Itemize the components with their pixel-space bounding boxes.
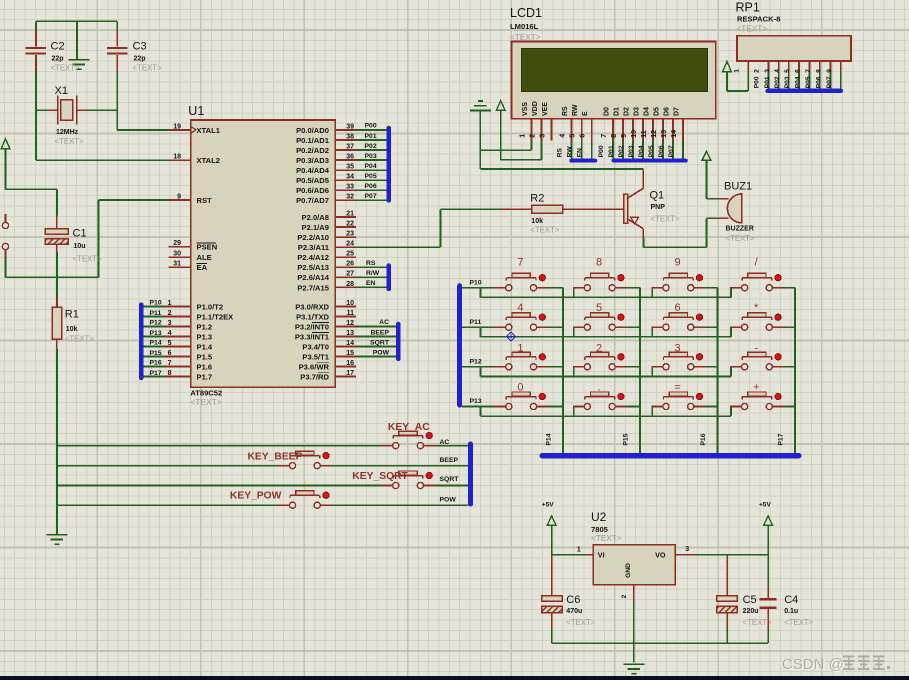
wire C1 to R1	[56, 252, 58, 307]
U2 pin 1 VI	[577, 546, 605, 559]
svg-text:P2.7/A15: P2.7/A15	[297, 283, 329, 292]
LCD1 pin 7 D0	[601, 107, 613, 141]
push-button key 2	[573, 352, 627, 370]
svg-text:9: 9	[675, 257, 681, 269]
svg-text:P17: P17	[777, 433, 784, 445]
svg-text:P00: P00	[598, 145, 605, 157]
svg-text:P1.6: P1.6	[197, 362, 213, 371]
svg-text:22p: 22p	[134, 55, 146, 62]
capacitor C1 electrolytic	[45, 216, 68, 298]
svg-text:P04: P04	[795, 76, 802, 88]
svg-text:P3.3/INT1: P3.3/INT1	[295, 332, 330, 341]
svg-text:P12: P12	[150, 320, 162, 327]
svg-text:3: 3	[168, 320, 172, 327]
wire crystal left vertical / XTAL2 net	[36, 21, 169, 160]
svg-text:38: 38	[346, 133, 354, 140]
wire LCD D0 to bus with net P00	[598, 141, 613, 159]
svg-text:POW: POW	[440, 497, 457, 504]
svg-text:P0.5/AD5: P0.5/AD5	[296, 176, 330, 185]
U1 pin 5 P1.4 with net P14	[144, 340, 213, 352]
RP1 pin 7 with net P05	[805, 61, 820, 89]
svg-text:D5: D5	[653, 107, 660, 116]
svg-text:10: 10	[631, 130, 638, 138]
svg-text:P1.2: P1.2	[197, 322, 213, 331]
wire key 3 to column net P16	[705, 366, 717, 368]
wire keypad row net P11	[462, 327, 731, 337]
svg-text:P01: P01	[764, 76, 771, 88]
LCD1 pin 12 D5	[651, 107, 663, 141]
push-button key 3	[651, 352, 705, 370]
svg-text:<TEXT>: <TEXT>	[651, 215, 680, 224]
svg-text:P2.6/A14: P2.6/A14	[297, 273, 329, 282]
svg-text:XTAL1: XTAL1	[197, 126, 221, 135]
LCD screen	[522, 49, 708, 92]
wire KEY_SQRT to net SQRT	[435, 485, 468, 487]
svg-text:34: 34	[346, 174, 354, 181]
svg-text:P2.2/A10: P2.2/A10	[297, 233, 329, 242]
bus keypad rows P10-P13	[457, 283, 462, 407]
svg-text:6: 6	[795, 69, 802, 73]
push-button key 8	[573, 273, 627, 291]
svg-text:AC: AC	[440, 439, 450, 446]
svg-text:25: 25	[346, 251, 354, 258]
push-button key 1	[494, 352, 548, 370]
svg-text:P15: P15	[150, 350, 162, 357]
wire net P23 from U1 pin 24 to R2	[356, 209, 501, 247]
svg-text:P10: P10	[470, 279, 482, 286]
svg-text:3: 3	[539, 134, 546, 138]
svg-text:P02: P02	[618, 145, 625, 157]
svg-text:P07: P07	[826, 76, 833, 88]
svg-text:C6: C6	[566, 594, 580, 606]
regulator U2 7805 body	[593, 545, 675, 585]
svg-text:+5V: +5V	[542, 502, 555, 509]
svg-text:D3: D3	[633, 107, 640, 116]
U1 pin 14 P3.4/T0 with net SQRT	[302, 339, 395, 351]
U1 pin 11 P3.1/TXD	[296, 310, 356, 322]
svg-text:-: -	[754, 342, 758, 354]
RP1 pin 1	[734, 61, 749, 73]
resistor R2	[501, 205, 594, 213]
svg-text:P3.6/WR: P3.6/WR	[299, 362, 330, 371]
svg-text:P0.3/AD3: P0.3/AD3	[296, 156, 329, 165]
wire +5V to U2 VI	[552, 525, 586, 554]
svg-text:<TEXT>: <TEXT>	[51, 64, 80, 73]
U1 pin 21 P2.0/A8	[302, 210, 357, 222]
svg-text:<TEXT>: <TEXT>	[566, 618, 595, 627]
svg-text:C2: C2	[51, 41, 65, 53]
RP1 pin 3 with net P01	[764, 61, 779, 89]
wire keypad row net P10	[462, 288, 731, 298]
svg-text:5: 5	[168, 340, 172, 347]
U1 pin 37 P0.2/AD2 with net P02	[296, 143, 386, 155]
svg-text:31: 31	[173, 261, 181, 268]
svg-text:7: 7	[517, 257, 523, 269]
svg-text:D0: D0	[603, 107, 610, 116]
U1 pin 19 XTAL1	[169, 123, 221, 135]
svg-text:P06: P06	[365, 183, 377, 190]
svg-text:P13: P13	[470, 398, 482, 405]
push-button KEY_SQRT	[381, 471, 435, 489]
svg-text:P11: P11	[150, 310, 162, 317]
power arrow +5V right	[764, 516, 773, 526]
U1 pin 17 P3.7/RD	[300, 370, 356, 382]
U1 pin 29 PSEN	[169, 240, 218, 252]
svg-text:.: .	[597, 381, 600, 393]
svg-text:EN: EN	[577, 148, 584, 158]
svg-text:RS: RS	[557, 148, 564, 158]
push-button key -	[730, 352, 784, 370]
svg-text:P04: P04	[365, 163, 377, 170]
U1 pin 31 EA	[169, 261, 208, 273]
wire key - to column net P17	[784, 366, 795, 368]
push-button key 5	[573, 313, 627, 331]
U1 pin 28 P2.7/A15 with net EN	[297, 280, 386, 292]
svg-text:P00: P00	[365, 123, 377, 130]
power arrow at RP1 pin 1	[723, 61, 732, 72]
svg-text:P03: P03	[365, 153, 377, 160]
U1 pin 9 RST	[169, 193, 213, 205]
wire LCD D6 to bus with net P06	[658, 141, 673, 159]
svg-text:5: 5	[784, 69, 791, 73]
push-button key 9	[651, 273, 705, 291]
svg-text:10: 10	[346, 300, 354, 307]
LCD1 pin 3 VEE	[539, 102, 551, 141]
svg-text:8: 8	[168, 370, 172, 377]
svg-text:18: 18	[173, 154, 181, 161]
wire KEY_BEEP to net BEEP	[332, 465, 468, 467]
svg-text:BEEP: BEEP	[440, 457, 459, 464]
svg-text:P0.2/AD2: P0.2/AD2	[296, 146, 329, 155]
wire LCD EN to bus	[577, 141, 592, 159]
power arrow above buzzer	[702, 151, 711, 160]
bus below RP1	[765, 89, 843, 93]
svg-text:P05: P05	[648, 145, 655, 157]
RP1 pin 8 with net P06	[816, 61, 831, 89]
LCD1 pin 1 VSS	[519, 102, 531, 141]
wire keypad row net P13	[462, 407, 731, 417]
svg-text:8: 8	[611, 134, 618, 138]
resistor R1	[52, 298, 62, 350]
U1 pin 6 P1.5 with net P15	[144, 350, 213, 362]
svg-text:P03: P03	[628, 145, 635, 157]
bus P1 (left of U1)	[139, 303, 144, 381]
U1 pin 13 P3.3/INT1 with net BEEP	[295, 329, 396, 341]
svg-text:P3.7/RD: P3.7/RD	[300, 372, 329, 381]
svg-text:RW: RW	[567, 146, 574, 158]
LCD1 pin 8 D1	[611, 107, 623, 141]
svg-text:<TEXT>: <TEXT>	[65, 334, 94, 343]
push-button key *	[730, 313, 784, 331]
svg-text:P1.0/T2: P1.0/T2	[197, 302, 224, 311]
wire ground rail to KEY_POW	[57, 504, 278, 506]
svg-text:17: 17	[346, 370, 354, 377]
svg-text:RS: RS	[562, 106, 569, 116]
svg-text:4: 4	[774, 69, 781, 73]
wire key 9 to column net P16	[705, 288, 717, 453]
wire keypad row net P12	[462, 367, 731, 377]
bus RS/RW/EN (right of U1)	[386, 263, 391, 291]
svg-text:KEY_POW: KEY_POW	[230, 491, 282, 502]
push-button key =	[651, 392, 705, 410]
ground bottom-left	[46, 535, 67, 544]
svg-text:U1: U1	[188, 104, 204, 118]
U1 pin 1 P1.0/T2 with net P10	[144, 300, 224, 312]
svg-text:<TEXT>: <TEXT>	[55, 137, 84, 146]
svg-text:2: 2	[168, 310, 172, 317]
svg-text:R2: R2	[530, 193, 544, 205]
svg-text:P1.1/T2EX: P1.1/T2EX	[197, 312, 234, 321]
svg-text:AC: AC	[379, 319, 389, 326]
wire U2 VO to +5V right	[695, 554, 768, 556]
LCD1 pin 11 D4	[641, 107, 653, 141]
svg-text:3: 3	[675, 342, 681, 354]
RP1 pin 2 with net P00	[754, 61, 769, 89]
svg-text:P2.1/A9: P2.1/A9	[302, 223, 329, 232]
wire ground rail to KEY_SQRT	[57, 485, 381, 487]
svg-text:P1.5: P1.5	[197, 352, 213, 361]
svg-text:=: =	[674, 381, 680, 393]
wire key / to column net P17	[784, 288, 795, 453]
LCD1 pin 14 D7	[671, 107, 683, 141]
svg-text:P15: P15	[622, 433, 629, 445]
svg-text:KEY_BEEP: KEY_BEEP	[248, 452, 303, 463]
svg-text:24: 24	[346, 241, 354, 248]
svg-text:C1: C1	[73, 228, 87, 240]
terminal pin J1 upper	[5, 214, 7, 222]
svg-text:1: 1	[517, 342, 523, 354]
bus P0 (right of U1)	[386, 126, 391, 203]
wire LCD D3 to bus with net P03	[628, 141, 643, 159]
svg-text:0.1u: 0.1u	[784, 608, 798, 615]
wire ground branch	[76, 21, 78, 59]
LCD1 pin 9 D2	[621, 107, 633, 141]
svg-text:LCD1: LCD1	[510, 6, 542, 20]
svg-text:10k: 10k	[66, 326, 78, 333]
wire KEY_AC to net AC	[435, 445, 468, 447]
svg-text:P00: P00	[754, 76, 761, 88]
svg-text:4: 4	[517, 302, 523, 314]
U1 pin 32 P0.7/AD7 with net P07	[296, 193, 386, 205]
svg-text:RP1: RP1	[736, 1, 760, 15]
U1 pin 18 XTAL2	[169, 154, 221, 166]
U1 pin 12 P3.2/INT0 with net AC	[295, 319, 396, 331]
svg-text:C4: C4	[784, 594, 798, 606]
svg-text:1: 1	[168, 300, 172, 307]
bus D0-D7 below LCD	[612, 159, 688, 163]
svg-text:37: 37	[346, 143, 354, 150]
svg-text:+: +	[753, 381, 759, 393]
push-button key 4	[494, 313, 548, 331]
svg-text:R1: R1	[65, 308, 79, 320]
wire LCD D5 to bus with net P05	[648, 141, 663, 159]
svg-text:P3.2/INT0: P3.2/INT0	[295, 322, 329, 331]
capacitor C3	[107, 31, 128, 71]
power arrow near LCD	[496, 101, 505, 111]
resistor pack RP1 body	[737, 36, 851, 61]
U1 pin 27 P2.6/A14 with net R/W	[297, 270, 386, 282]
svg-text:R/W: R/W	[366, 270, 380, 277]
svg-text:28: 28	[346, 281, 354, 288]
push-button KEY_BEEP	[278, 451, 332, 469]
svg-text:32: 32	[346, 194, 354, 201]
watermark CSDN	[782, 656, 890, 674]
wire +5V right arrow down	[767, 525, 769, 588]
wire ground rail U2	[552, 602, 769, 663]
svg-text:PSEN: PSEN	[197, 243, 218, 252]
svg-text:12: 12	[346, 320, 354, 327]
wire LCD D1 to bus with net P01	[608, 141, 623, 159]
svg-text:1: 1	[734, 69, 741, 73]
capacitor C4	[760, 589, 777, 629]
svg-text:6: 6	[579, 134, 586, 138]
U2 pin 2 GND	[621, 563, 634, 602]
push-button KEY_AC	[381, 431, 435, 449]
svg-text:P2.4/A12: P2.4/A12	[297, 253, 329, 262]
wire KEY_POW to net POW	[332, 504, 468, 506]
wire LCD RS to bus	[557, 141, 572, 159]
svg-text:6: 6	[675, 302, 681, 314]
svg-text:P12: P12	[470, 358, 482, 365]
svg-text:13: 13	[346, 330, 354, 337]
svg-text:BUZZER: BUZZER	[726, 226, 754, 233]
svg-text:P0.4/AD4: P0.4/AD4	[296, 166, 330, 175]
svg-text:5: 5	[569, 134, 576, 138]
wire key 7 to column net P14	[548, 288, 563, 453]
terminal pin J1 lower	[2, 243, 8, 249]
svg-text:P2.5/A13: P2.5/A13	[297, 263, 329, 272]
IC U1 AT89C52 body	[191, 120, 336, 387]
push-button key 7	[494, 273, 548, 291]
wire ground rail to Q1 collector	[480, 150, 643, 169]
svg-text:11: 11	[641, 130, 648, 138]
U1 pin 10 P3.0/RXD	[295, 300, 356, 312]
svg-text:E: E	[582, 111, 589, 116]
U1 pin 30 ALE	[169, 251, 212, 263]
svg-text:12MHz: 12MHz	[56, 129, 79, 136]
svg-text:<TEXT>: <TEXT>	[510, 33, 541, 42]
U2 pin 3 VO	[655, 546, 695, 559]
LCD1 pin 5 RW	[569, 104, 581, 141]
RP1 pin 6 with net P04	[795, 61, 810, 89]
svg-text:LM016L: LM016L	[510, 22, 539, 31]
push-button key +	[730, 392, 784, 410]
U1 pin 16 P3.6/WR	[299, 360, 357, 372]
wire LCD D2 to bus with net P02	[618, 141, 633, 159]
svg-text:SQRT: SQRT	[440, 476, 460, 483]
svg-text:9: 9	[621, 134, 628, 138]
svg-text:P16: P16	[150, 360, 162, 367]
wire power to buzzer top pin	[706, 160, 717, 199]
svg-text:9: 9	[826, 69, 833, 73]
wire crystal top link	[36, 20, 117, 22]
svg-text:36: 36	[346, 153, 354, 160]
U1 pin 24 P2.3/A11	[298, 241, 356, 253]
svg-text:23: 23	[346, 231, 354, 238]
svg-text:RS: RS	[366, 260, 376, 267]
svg-text:3: 3	[764, 69, 771, 73]
svg-text:P05: P05	[805, 76, 812, 88]
wire key . to column net P15	[627, 406, 640, 408]
capacitor C2	[25, 31, 46, 71]
svg-text:EA: EA	[197, 263, 208, 272]
svg-text:BUZ1: BUZ1	[724, 181, 752, 193]
svg-text:RST: RST	[197, 196, 213, 205]
wire X1 right link	[87, 109, 117, 111]
svg-text:P0.6/AD6: P0.6/AD6	[296, 186, 329, 195]
svg-text:P02: P02	[365, 143, 377, 150]
push-button KEY_POW	[278, 491, 332, 509]
svg-text:26: 26	[346, 261, 354, 268]
wire key 8 to column net P15	[627, 288, 640, 453]
svg-text:39: 39	[346, 123, 354, 130]
svg-text:ALE: ALE	[197, 253, 212, 262]
svg-text:<TEXT>: <TEXT>	[133, 64, 162, 73]
svg-text:<TEXT>: <TEXT>	[784, 618, 813, 627]
svg-text:P06: P06	[658, 145, 665, 157]
svg-text:*: *	[754, 302, 759, 314]
bus AC/BEEP/SQRT/POW right	[468, 442, 473, 507]
RP1 pin 4 with net P02	[774, 61, 789, 89]
svg-text:P0.0/AD0: P0.0/AD0	[296, 126, 329, 135]
svg-text:12: 12	[651, 130, 658, 138]
svg-text:19: 19	[173, 123, 181, 130]
svg-text:VI: VI	[598, 550, 605, 559]
wire key 1 to column net P14	[548, 366, 563, 368]
push-button key 6	[651, 313, 705, 331]
U1 pin 33 P0.6/AD6 with net P06	[296, 183, 386, 195]
transistor Q1 PNP	[594, 170, 643, 238]
svg-text:D7: D7	[673, 107, 680, 116]
bus keypad columns P14-P17	[540, 453, 802, 459]
U1 pin 22 P2.1/A9	[302, 220, 357, 232]
svg-text:RESPACK-8: RESPACK-8	[737, 15, 780, 24]
svg-text:7805: 7805	[591, 525, 609, 534]
crystal X1	[48, 95, 87, 124]
ground near crystal	[68, 60, 89, 69]
wire power arrow stem to C1	[6, 149, 57, 216]
U1 pin 8 P1.7 with net P17	[144, 370, 213, 382]
wire key + to column net P17	[784, 406, 795, 408]
svg-text:C3: C3	[133, 41, 147, 53]
svg-text:P02: P02	[774, 76, 781, 88]
svg-text:POW: POW	[373, 349, 390, 356]
svg-text:11: 11	[347, 310, 355, 317]
svg-text:<TEXT>: <TEXT>	[530, 225, 559, 234]
RP1 pin 5 with net P03	[784, 61, 799, 89]
LCD1 pin 6 E	[579, 111, 591, 141]
svg-text:15: 15	[346, 350, 354, 357]
svg-text:470u: 470u	[566, 608, 582, 615]
svg-text:33: 33	[346, 184, 354, 191]
svg-text:7: 7	[805, 69, 812, 73]
U1 pin 36 P0.3/AD3 with net P03	[296, 153, 386, 165]
svg-text:X1: X1	[55, 85, 68, 97]
svg-text:7: 7	[601, 134, 608, 138]
power arrow +5V left	[547, 516, 556, 526]
LCD1 pin 4 RS	[559, 106, 571, 141]
svg-text:C5: C5	[743, 594, 757, 606]
wire key * to column net P17	[784, 326, 795, 328]
svg-text:P3.5/T1: P3.5/T1	[302, 352, 329, 361]
wire crystal right vertical / XTAL1 net	[117, 21, 168, 130]
svg-text:VO: VO	[655, 550, 666, 559]
svg-text:14: 14	[346, 340, 354, 347]
svg-text:KEY_AC: KEY_AC	[388, 422, 430, 433]
capacitor C5 electrolytic	[717, 555, 738, 629]
svg-text:P2.3/A11: P2.3/A11	[298, 243, 330, 252]
ground below U2	[623, 664, 644, 673]
